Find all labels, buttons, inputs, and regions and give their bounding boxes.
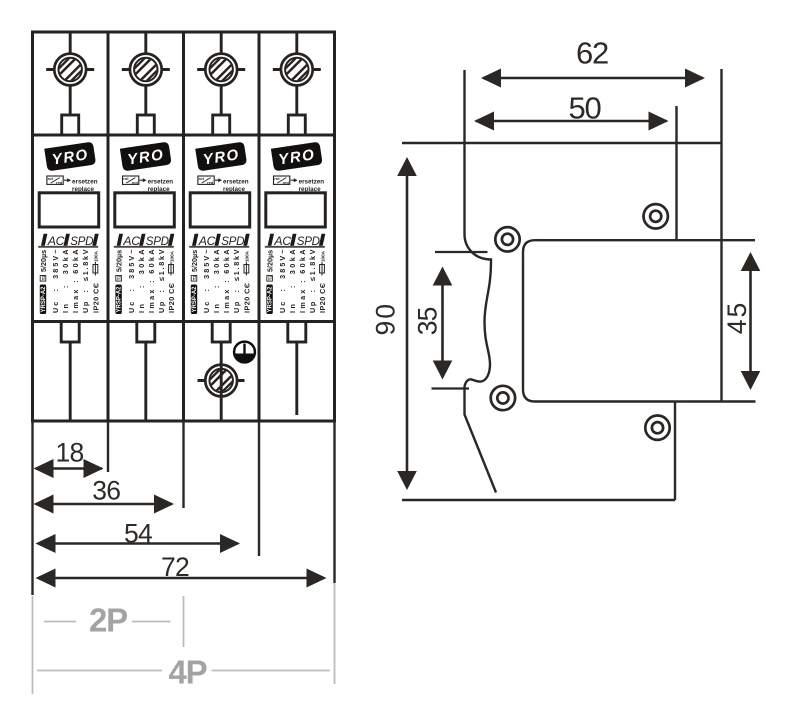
wire pole 4	[295, 342, 298, 415]
extension line pole3	[258, 421, 260, 556]
extension line pole1	[107, 421, 109, 472]
top terminal section line	[33, 134, 335, 137]
wire pole 2	[144, 342, 147, 421]
mounting hole top right	[644, 204, 668, 228]
extension line left edge	[31, 421, 33, 595]
svg-text:90: 90	[371, 302, 401, 335]
50 dim right extension	[675, 106, 677, 240]
extension line pole2	[182, 421, 184, 508]
wire pole 3	[220, 342, 223, 421]
wire pole 1	[69, 342, 72, 421]
dim 35 vertical	[413, 267, 453, 380]
svg-text:18: 18	[56, 438, 84, 468]
svg-text:62: 62	[576, 36, 608, 71]
dim 54	[36, 519, 241, 554]
pole module 4	[265, 32, 327, 342]
earth tick marks pole 3	[198, 379, 245, 382]
svg-text:72: 72	[161, 552, 189, 582]
pole module 3	[189, 32, 251, 342]
earth terminal screw pole 3	[205, 364, 237, 396]
pole divider 1	[107, 32, 110, 421]
svg-text:2P: 2P	[89, 602, 127, 639]
svg-text:36: 36	[92, 475, 120, 505]
2P/4P pole-count guides	[33, 583, 335, 694]
pole divider 2	[182, 32, 185, 421]
plug-in module recess rounded rectangle	[523, 240, 756, 401]
svg-text:45: 45	[722, 301, 752, 334]
mounting hole top left	[495, 227, 519, 251]
side outline right edge	[720, 69, 722, 401]
side outline top edge	[402, 142, 722, 144]
svg-text:35: 35	[413, 307, 443, 335]
pole divider 3	[258, 32, 261, 421]
pole module 2	[114, 32, 176, 342]
dim 18	[34, 438, 104, 479]
svg-text:54: 54	[124, 519, 152, 549]
svg-text:50: 50	[569, 91, 602, 126]
dim 72	[36, 552, 327, 588]
side outline left face and DIN clip profile	[465, 70, 497, 493]
dim 36	[34, 475, 175, 513]
side lower right step edge	[674, 401, 676, 500]
35 bottom extension	[432, 387, 470, 389]
mounting hole bottom left	[491, 386, 515, 410]
enclosure outline front view	[33, 32, 335, 421]
dim 50	[474, 91, 669, 131]
dim 45 vertical	[722, 252, 760, 390]
side outline bottom edge	[402, 499, 675, 501]
svg-text:4P: 4P	[169, 654, 207, 691]
dim 90 vertical	[371, 157, 417, 490]
dim 62	[481, 36, 705, 88]
earth symbol badge	[234, 342, 255, 363]
bottom terminal section line	[33, 320, 335, 323]
35 top extension	[435, 251, 488, 253]
mounting hole bottom right	[645, 416, 669, 440]
pole module 1	[38, 32, 100, 342]
extension line right edge	[333, 421, 335, 583]
